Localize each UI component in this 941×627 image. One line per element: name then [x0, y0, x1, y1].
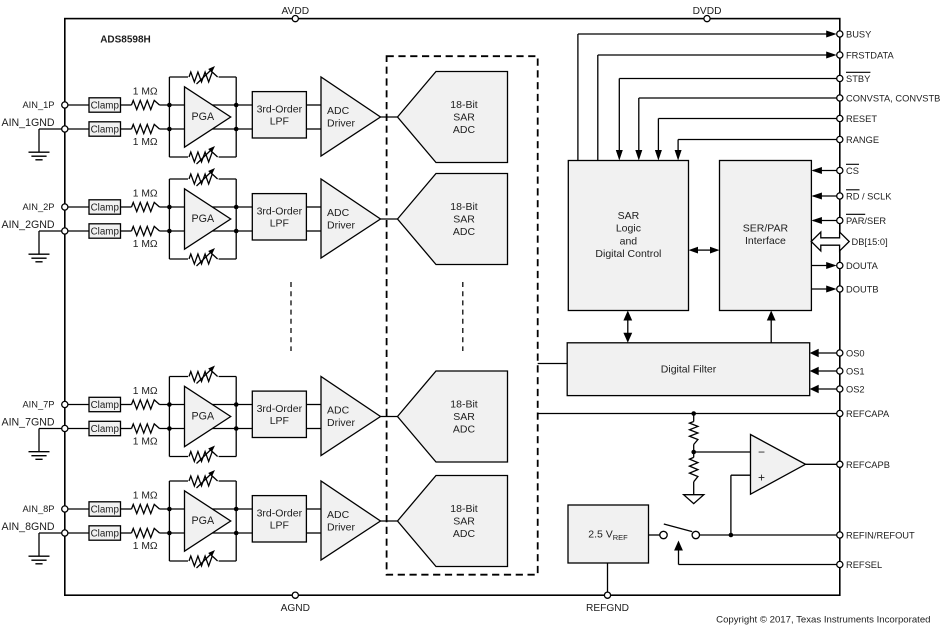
wire — [306, 230, 321, 232]
pin AIN_1GND — [2, 117, 68, 132]
wire REFSEL — [674, 541, 837, 565]
svg-text:RD / SCLK: RD / SCLK — [846, 192, 892, 202]
svg-text:PGA: PGA — [192, 411, 215, 423]
wire — [381, 416, 398, 418]
wire — [121, 128, 132, 130]
wire PAR/SER — [811, 217, 836, 224]
wire — [121, 404, 132, 406]
svg-text:AVDD: AVDD — [282, 6, 310, 17]
node — [167, 402, 172, 407]
svg-text:Clamp: Clamp — [91, 124, 120, 135]
clamp CH7P — [89, 397, 121, 411]
wire BUSY — [578, 31, 837, 161]
svg-text:1 MΩ: 1 MΩ — [133, 541, 158, 552]
svg-text:Clamp: Clamp — [91, 226, 120, 237]
svg-text:Driver: Driver — [327, 522, 356, 534]
svg-text:1 MΩ: 1 MΩ — [133, 239, 158, 250]
svg-text:AIN_7GND: AIN_7GND — [2, 417, 55, 429]
svg-text:1 MΩ: 1 MΩ — [133, 87, 158, 98]
svg-text:REFGND: REFGND — [586, 603, 629, 614]
svg-text:Interface: Interface — [745, 235, 786, 247]
resistor 1M CH2GND — [132, 226, 160, 250]
node — [167, 426, 172, 431]
variable resistor CH8 bottom — [189, 550, 218, 568]
svg-text:ADC: ADC — [327, 509, 350, 521]
wire REFIN/REFOUT — [700, 534, 837, 536]
block LPF8 — [252, 496, 306, 542]
svg-text:REFCAPB: REFCAPB — [846, 460, 890, 470]
block LPF2 — [252, 194, 306, 240]
pin REFIN/REFOUT — [837, 531, 915, 541]
clamp CH7GND — [89, 421, 121, 435]
wire — [68, 508, 89, 510]
pin CONVSTA, CONVSTB — [837, 94, 941, 104]
resistor 1M CH1GND — [132, 124, 160, 148]
dashed ADC group box — [387, 56, 538, 575]
wire — [306, 508, 321, 510]
wire — [306, 206, 321, 208]
svg-text:ADC: ADC — [327, 207, 350, 219]
svg-text:DB[15:0]: DB[15:0] — [852, 237, 888, 247]
wire — [306, 128, 321, 130]
svg-text:ADC: ADC — [327, 405, 350, 417]
ground AIN_2GND — [29, 231, 62, 262]
block 18-bit SAR ADC 2 — [398, 174, 508, 265]
svg-text:3rd-Order: 3rd-Order — [257, 103, 303, 115]
node — [167, 531, 172, 536]
svg-text:PGA: PGA — [192, 213, 215, 225]
node — [167, 127, 172, 132]
svg-text:RESET: RESET — [846, 114, 877, 124]
svg-text:Clamp: Clamp — [91, 400, 120, 411]
svg-text:AGND: AGND — [281, 603, 310, 614]
block 18-bit SAR ADC 8 — [398, 476, 508, 567]
node — [234, 507, 239, 512]
resistor 1M CH7P — [132, 386, 160, 409]
svg-text:AIN_7P: AIN_7P — [22, 400, 54, 410]
wire — [121, 104, 132, 106]
wire — [381, 520, 398, 522]
wire — [306, 104, 321, 106]
block 18-bit SAR ADC 7 — [398, 371, 508, 462]
svg-text:18-Bit: 18-Bit — [450, 399, 478, 411]
svg-text:ADS8598H: ADS8598H — [100, 35, 151, 46]
wire — [169, 76, 236, 78]
variable resistor CH1 top — [189, 66, 218, 84]
svg-text:LPF: LPF — [270, 115, 289, 127]
svg-text:AIN_2GND: AIN_2GND — [2, 219, 55, 231]
wire — [169, 456, 236, 458]
op-amp PGA2 — [185, 189, 231, 249]
pin REFCAPA — [837, 409, 890, 419]
wire — [121, 508, 132, 510]
wire — [68, 104, 89, 106]
pin AGND — [281, 592, 310, 614]
clamp CH1P — [89, 98, 121, 112]
pin RESET — [837, 114, 878, 124]
wire ADC to filter — [538, 363, 568, 365]
pin CS — [837, 164, 859, 176]
node — [234, 531, 239, 536]
block 2.5V reference U4 — [568, 505, 649, 563]
wire — [306, 404, 321, 406]
pin AIN_2GND — [2, 219, 68, 234]
variable resistor CH2 bottom — [189, 248, 218, 266]
wire OS0 — [810, 349, 837, 357]
wire — [169, 376, 236, 378]
wire — [169, 156, 236, 158]
svg-text:DOUTB: DOUTB — [846, 285, 879, 295]
svg-text:ADC: ADC — [453, 124, 476, 136]
resistor R2 refdivider — [690, 457, 698, 494]
wire — [168, 377, 170, 457]
svg-text:and: and — [620, 235, 638, 247]
wire — [160, 532, 253, 534]
wire — [121, 532, 132, 534]
wire — [160, 428, 253, 430]
svg-text:ADC: ADC — [453, 226, 476, 238]
svg-text:Clamp: Clamp — [91, 528, 120, 539]
svg-text:LPF: LPF — [270, 217, 289, 229]
bus arrow DB[15:0] — [811, 232, 887, 251]
svg-text:Clamp: Clamp — [91, 202, 120, 213]
wire OS2 — [810, 385, 837, 393]
node — [691, 450, 696, 455]
svg-text:RANGE: RANGE — [846, 135, 879, 145]
ground AIN_8GND — [29, 533, 62, 564]
wire — [168, 179, 170, 259]
clamp CH1GND — [89, 122, 121, 136]
clamp CH8GND — [89, 526, 121, 540]
svg-text:Driver: Driver — [327, 118, 356, 130]
svg-text:CONVSTA, CONVSTB: CONVSTA, CONVSTB — [846, 94, 940, 104]
wire — [68, 532, 89, 534]
wire RANGE — [675, 140, 837, 161]
variable resistor CH1 bottom — [189, 146, 218, 164]
wire REFCAPB — [806, 463, 837, 465]
wire — [121, 428, 132, 430]
block digital filter U3 — [567, 343, 810, 396]
variable resistor CH2 top — [189, 168, 218, 186]
op-amp U5 — [751, 435, 806, 495]
svg-text:REFIN/REFOUT: REFIN/REFOUT — [846, 531, 915, 541]
svg-text:+: + — [758, 471, 765, 485]
svg-text:Digital Filter: Digital Filter — [661, 364, 717, 376]
pin REFSEL — [837, 560, 882, 570]
pin PAR/SER — [837, 214, 887, 226]
pin STBY — [837, 72, 871, 84]
wire — [160, 404, 253, 406]
svg-text:1 MΩ: 1 MΩ — [133, 137, 158, 148]
wire — [68, 404, 89, 406]
wire opamp plus input — [731, 475, 751, 535]
resistor 1M CH7GND — [132, 424, 160, 448]
resistor R1 refdivider — [690, 414, 698, 445]
node — [167, 205, 172, 210]
svg-text:AIN_2P: AIN_2P — [22, 202, 54, 212]
svg-text:ADC: ADC — [453, 424, 476, 436]
pin AIN_8GND — [2, 521, 68, 536]
svg-text:AIN_8GND: AIN_8GND — [2, 521, 55, 533]
svg-text:PAR/SER: PAR/SER — [846, 216, 886, 226]
node — [234, 229, 239, 234]
svg-text:REFSEL: REFSEL — [846, 560, 882, 570]
switch S1 — [660, 524, 700, 539]
wire REFCAPA — [538, 413, 837, 415]
wire — [168, 481, 170, 561]
svg-text:Driver: Driver — [327, 220, 356, 232]
wire — [160, 508, 253, 510]
node — [691, 411, 696, 416]
svg-text:FRSTDATA: FRSTDATA — [846, 51, 894, 61]
svg-text:SAR: SAR — [618, 210, 640, 222]
resistor 1M CH2P — [132, 189, 160, 212]
svg-text:STBY: STBY — [846, 74, 870, 84]
outer device border — [65, 19, 840, 596]
resistor 1M CH8GND — [132, 528, 160, 552]
pin AIN_2P — [22, 202, 67, 212]
svg-text:PGA: PGA — [192, 111, 215, 123]
svg-text:Logic: Logic — [616, 223, 641, 235]
wire FRSTDATA — [598, 52, 837, 161]
pin DOUTA — [837, 261, 879, 271]
wire RD / SCLK — [811, 193, 836, 200]
wire — [160, 230, 253, 232]
variable resistor CH7 top — [189, 366, 218, 384]
svg-text:18-Bit: 18-Bit — [450, 503, 478, 515]
svg-text:ADC: ADC — [327, 105, 350, 117]
wire DOUTB — [811, 286, 836, 293]
pin RANGE — [837, 135, 879, 145]
node — [729, 533, 734, 538]
svg-text:DOUTA: DOUTA — [846, 261, 879, 271]
wire — [169, 480, 236, 482]
amplifier ADC driver 7 — [321, 377, 381, 456]
svg-text:ADC: ADC — [453, 528, 476, 540]
wire — [160, 128, 253, 130]
svg-text:SAR: SAR — [453, 214, 475, 226]
svg-text:AIN_1P: AIN_1P — [22, 100, 54, 110]
block 18-bit SAR ADC 1 — [398, 72, 508, 163]
bidirectional arrow SAR-SERPAR — [689, 247, 720, 254]
wire — [68, 428, 89, 430]
pin OS2 — [837, 385, 865, 395]
wire — [68, 206, 89, 208]
svg-text:1 MΩ: 1 MΩ — [133, 189, 158, 200]
variable resistor CH7 bottom — [189, 446, 218, 464]
block LPF7 — [252, 391, 306, 437]
op-amp PGA7 — [185, 386, 231, 446]
svg-text:Clamp: Clamp — [91, 100, 120, 111]
wire OS1 — [810, 367, 837, 375]
wire — [68, 128, 89, 130]
ground AIN_1GND — [29, 129, 62, 160]
continuation dashes right — [462, 282, 464, 351]
svg-text:1 MΩ: 1 MΩ — [133, 491, 158, 502]
wire REFGND stem — [607, 563, 609, 595]
op-amp PGA1 — [185, 87, 231, 147]
ground AIN_7GND — [29, 429, 62, 460]
node — [167, 507, 172, 512]
svg-text:CS: CS — [846, 166, 859, 176]
pin OS1 — [837, 367, 865, 377]
wire — [168, 77, 170, 157]
op-amp PGA8 — [185, 491, 231, 551]
svg-text:Copyright © 2017, Texas Instru: Copyright © 2017, Texas Instruments Inco… — [716, 615, 930, 626]
svg-text:3rd-Order: 3rd-Order — [257, 205, 303, 217]
node — [234, 103, 239, 108]
svg-text:BUSY: BUSY — [846, 30, 871, 40]
clamp CH2GND — [89, 224, 121, 238]
pin FRSTDATA — [837, 51, 895, 61]
wire CONVSTA, CONVSTB — [635, 98, 836, 161]
wire CS — [811, 167, 836, 174]
wire — [160, 206, 253, 208]
svg-text:LPF: LPF — [270, 415, 289, 427]
svg-text:Clamp: Clamp — [91, 424, 120, 435]
resistor 1M CH1P — [132, 87, 160, 110]
svg-text:OS1: OS1 — [846, 367, 865, 377]
svg-text:3rd-Order: 3rd-Order — [257, 507, 303, 519]
svg-text:SAR: SAR — [453, 516, 475, 528]
pin AIN_7P — [22, 400, 67, 410]
pin OS0 — [837, 349, 865, 359]
amplifier ADC driver 8 — [321, 481, 381, 560]
svg-text:SAR: SAR — [453, 411, 475, 423]
pin DOUTB — [837, 285, 879, 295]
wire — [649, 534, 660, 536]
node — [234, 402, 239, 407]
svg-text:OS2: OS2 — [846, 385, 865, 395]
wire — [169, 258, 236, 260]
pin DVDD — [693, 6, 722, 22]
ground refdivider — [684, 495, 704, 504]
svg-text:1 MΩ: 1 MΩ — [133, 386, 158, 397]
svg-text:SER/PAR: SER/PAR — [743, 222, 789, 234]
wire — [235, 481, 237, 561]
pin RD / SCLK — [837, 190, 893, 202]
svg-text:18-Bit: 18-Bit — [450, 99, 478, 111]
wire — [381, 218, 398, 220]
svg-text:DVDD: DVDD — [693, 6, 722, 17]
pin AVDD — [282, 6, 310, 22]
svg-text:OS0: OS0 — [846, 349, 865, 359]
pin REFGND — [586, 592, 629, 614]
pin BUSY — [837, 30, 872, 40]
svg-text:Clamp: Clamp — [91, 504, 120, 515]
wire — [235, 377, 237, 457]
pin REFCAPB — [837, 460, 890, 470]
wire RESET — [655, 119, 837, 161]
wire — [235, 77, 237, 157]
bidirectional arrow SAR-filter — [623, 311, 632, 343]
svg-text:SAR: SAR — [453, 112, 475, 124]
svg-text:18-Bit: 18-Bit — [450, 201, 478, 213]
wire — [160, 104, 253, 106]
pin AIN_8P — [22, 504, 67, 514]
wire STBY — [616, 79, 837, 161]
svg-text:Driver: Driver — [327, 417, 356, 429]
node — [234, 426, 239, 431]
wire DOUTA — [811, 262, 836, 269]
wire — [306, 532, 321, 534]
wire — [306, 428, 321, 430]
wire — [169, 178, 236, 180]
wire — [68, 230, 89, 232]
svg-text:Digital Control: Digital Control — [595, 248, 661, 260]
wire — [121, 206, 132, 208]
continuation dashes left — [290, 282, 292, 351]
svg-text:PGA: PGA — [192, 515, 215, 527]
clamp CH8P — [89, 502, 121, 516]
wire — [381, 116, 398, 118]
svg-text:REFCAPA: REFCAPA — [846, 409, 890, 419]
amplifier ADC driver 2 — [321, 179, 381, 258]
node — [234, 205, 239, 210]
variable resistor CH8 top — [189, 470, 218, 488]
block SER/PAR interface U2 — [720, 161, 812, 311]
copyright note — [716, 615, 930, 626]
svg-text:AIN_8P: AIN_8P — [22, 504, 54, 514]
device label ADS8598H — [100, 35, 151, 46]
wire — [235, 179, 237, 259]
svg-text:1 MΩ: 1 MΩ — [133, 437, 158, 448]
resistor 1M CH8P — [132, 491, 160, 514]
wire — [121, 230, 132, 232]
pin AIN_1P — [22, 100, 67, 110]
node — [234, 127, 239, 132]
block SAR logic U1 — [568, 161, 688, 311]
wire — [169, 560, 236, 562]
amplifier ADC driver 1 — [321, 77, 381, 156]
svg-text:AIN_1GND: AIN_1GND — [2, 117, 55, 129]
node — [167, 103, 172, 108]
wire — [693, 445, 695, 458]
clamp CH2P — [89, 200, 121, 214]
node — [167, 229, 172, 234]
svg-text:−: − — [758, 445, 765, 459]
pin AIN_7GND — [2, 417, 68, 432]
svg-text:LPF: LPF — [270, 519, 289, 531]
arrow filter-SERPAR — [767, 311, 776, 343]
svg-text:3rd-Order: 3rd-Order — [257, 403, 303, 415]
block LPF1 — [252, 92, 306, 138]
wire opamp minus input — [694, 451, 751, 453]
